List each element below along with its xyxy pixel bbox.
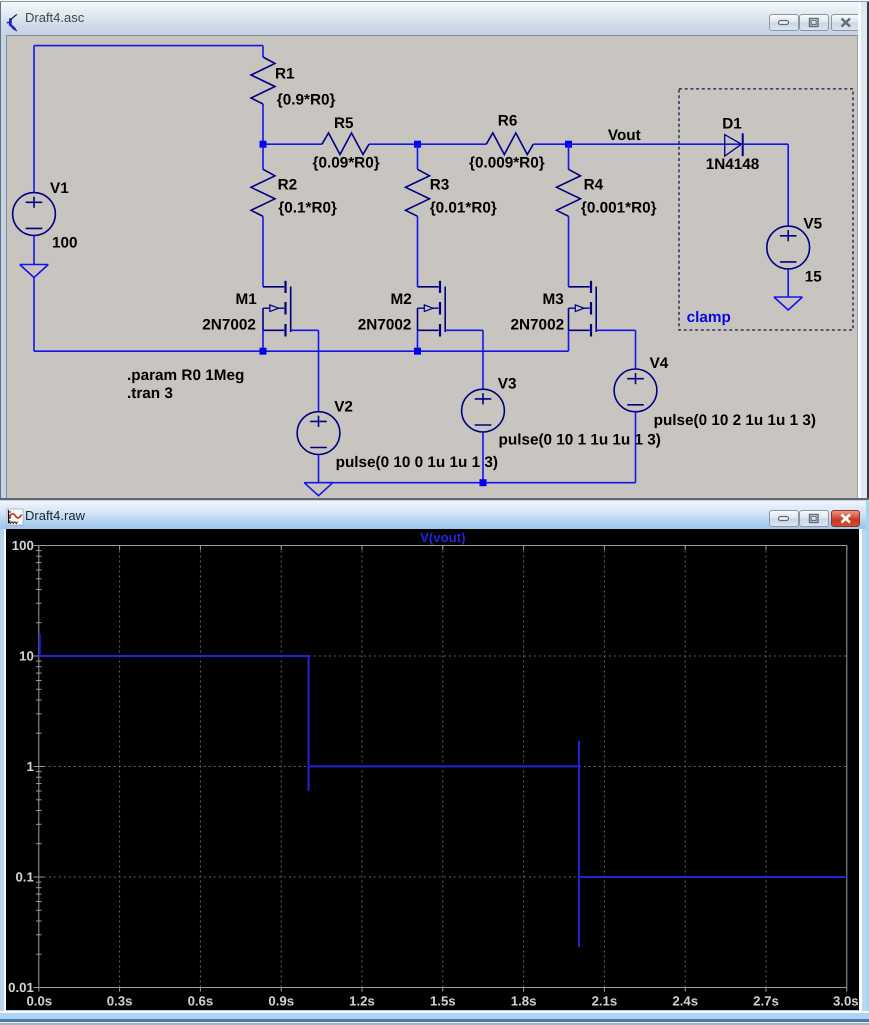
svg-text:15: 15 [805,269,823,286]
ground V1 [20,265,49,278]
label V3 [498,376,517,393]
axis minor ticks [36,550,42,954]
svg-text:{0.001*R0}: {0.001*R0} [581,200,657,217]
wire Vout to D1 [569,143,789,145]
svg-text:R4: R4 [584,177,604,194]
wire R1 to node A [262,104,264,144]
svg-text:Vout: Vout [608,127,641,144]
voltage source V1 [13,193,56,236]
wire R4 to M3 drain [568,216,570,286]
svg-text:1.8s: 1.8s [511,993,537,1008]
label R6 [498,113,518,130]
label M2 [391,291,412,308]
wire source bus [34,350,569,352]
svg-text:0.9s: 0.9s [268,993,294,1008]
svg-text:V1: V1 [50,180,69,197]
wire D1 to V5 [787,144,789,226]
wire V5 bottom [787,269,789,297]
svg-text:{0.09*R0}: {0.09*R0} [313,155,380,172]
value 2N7002 M2 [358,317,412,334]
svg-text:0.1: 0.1 [15,869,33,884]
directive .param R0 1Meg [127,367,244,384]
node M2 source [414,348,421,355]
node B junction [414,141,421,148]
label V1 [50,180,69,197]
svg-text:M2: M2 [391,291,412,308]
svg-text:pulse(0 10 2 1u 1u 1 3): pulse(0 10 2 1u 1u 1 3) [654,412,816,429]
label R2 [278,177,298,194]
value 2N7002 M1 [202,317,256,334]
svg-text:.param R0 1Meg: .param R0 1Meg [127,367,244,384]
svg-text:V3: V3 [498,376,517,393]
value 100 [52,235,78,252]
svg-text:clamp: clamp [687,309,731,326]
svg-text:R3: R3 [430,177,450,194]
value {0.9*R0} [277,92,336,109]
svg-text:{0.009*R0}: {0.009*R0} [469,155,545,172]
label R1 [275,66,295,83]
y axis labels [8,538,34,995]
svg-text:D1: D1 [722,116,742,133]
plot background [6,529,859,1010]
x axis labels [26,993,858,1008]
value 15 [805,269,823,286]
svg-text:M1: M1 [236,291,258,308]
svg-text:1: 1 [26,759,33,774]
svg-text:0.3s: 0.3s [107,993,133,1008]
wire R3 to M2 drain [417,216,419,286]
svg-text:2.7s: 2.7s [753,993,779,1008]
axis box [34,545,847,987]
wire R2 to M1 drain [262,216,264,286]
resistor R2 [251,144,275,216]
svg-text:1.5s: 1.5s [430,993,456,1008]
value pulse V3 [499,431,661,448]
wire V2 bottom [318,455,320,483]
label R3 [430,177,450,194]
wire node B to R6 [418,143,487,145]
svg-text:100: 100 [12,538,34,553]
svg-text:R2: R2 [278,177,298,194]
wire M2 source to bus [417,330,419,351]
svg-text:.tran 3: .tran 3 [127,385,173,402]
value {0.009*R0} [469,155,545,172]
resistor R6 [486,133,533,155]
svg-text:V2: V2 [334,399,353,416]
wire V1 top to R1 [34,46,263,193]
label M1 [236,291,258,308]
resistor R5 [322,133,369,155]
node A junction [260,141,323,148]
node Vout junction [565,141,572,148]
node M1 source [260,348,267,355]
wire R6 to node Vout [533,143,568,145]
ground V5 [774,297,803,310]
value {0.01*R0} [430,200,497,217]
label V2 [334,399,353,416]
directive .tran 3 [127,385,173,402]
clamp box [679,89,853,330]
svg-text:3.0s: 3.0s [833,993,859,1008]
svg-text:R6: R6 [498,113,518,130]
grid dashed lines [39,545,847,987]
wire R5 to node B [369,143,418,145]
wire V1 ground to bus [33,277,35,352]
svg-text:M3: M3 [543,291,564,308]
value pulse V4 [654,412,816,429]
wire M1 gate to V2 [291,330,319,411]
label R4 [584,177,604,194]
svg-text:{0.9*R0}: {0.9*R0} [277,92,336,109]
wire M1 source to bus [262,330,264,351]
wire bottom net [319,482,636,484]
label R5 [334,115,354,132]
svg-text:0.6s: 0.6s [188,993,214,1008]
wire M3 source to bus [568,330,570,351]
label V5 [803,216,822,233]
axis major ticks [34,545,847,991]
svg-text:{0.01*R0}: {0.01*R0} [430,200,497,217]
value {0.001*R0} [581,200,657,217]
diode D1 [725,133,743,156]
svg-text:2N7002: 2N7002 [358,317,412,334]
resistor R4 [557,144,581,216]
svg-text:R5: R5 [334,115,354,132]
voltage source V4 [614,369,657,412]
value {0.09*R0} [313,155,380,172]
voltage source V2 [297,412,340,455]
svg-text:R1: R1 [275,66,295,83]
svg-text:2.4s: 2.4s [672,993,698,1008]
svg-text:2N7002: 2N7002 [511,317,565,334]
voltage source V5 [767,226,810,269]
resistor R1 [251,57,275,104]
svg-text:pulse(0 10 1 1u 1u 1 3): pulse(0 10 1 1u 1u 1 3) [499,431,661,448]
resistor R3 [406,144,430,216]
svg-text:V(vout): V(vout) [420,530,465,545]
svg-text:1N4148: 1N4148 [706,156,760,173]
svg-text:100: 100 [52,235,78,252]
svg-text:0.01: 0.01 [8,980,34,995]
transistor M2 [418,281,446,337]
svg-text:0.0s: 0.0s [26,993,52,1008]
trace V(vout) [40,633,847,947]
svg-text:{0.1*R0}: {0.1*R0} [278,200,337,217]
voltage source V3 [462,389,505,432]
value 1N4148 [706,156,760,173]
ground V2 [304,483,333,496]
label clamp [687,309,731,326]
svg-text:pulse(0 10 0 1u 1u 1 3): pulse(0 10 0 1u 1u 1 3) [336,454,498,471]
transistor M3 [569,281,597,337]
value pulse V2 [336,454,498,471]
node V3 bottom [480,479,487,486]
wire V1 bottom [33,235,35,264]
label M3 [543,291,564,308]
svg-text:2N7002: 2N7002 [202,317,256,334]
transistor M1 [263,281,291,337]
svg-text:10: 10 [19,648,34,663]
svg-text:V5: V5 [803,216,822,233]
svg-text:1.2s: 1.2s [349,993,375,1008]
wire V4 bottom [635,412,637,483]
wire V3 bottom [482,432,484,483]
svg-text:V4: V4 [650,355,669,372]
svg-text:2.1s: 2.1s [592,993,618,1008]
value 2N7002 M3 [511,317,565,334]
trace title V(vout) [420,530,465,545]
label Vout [608,127,641,144]
label D1 [722,116,742,133]
wire M2 gate to V3 [445,330,483,389]
wire M3 gate to V4 [596,330,635,369]
label V4 [650,355,669,372]
value {0.1*R0} [278,200,337,217]
